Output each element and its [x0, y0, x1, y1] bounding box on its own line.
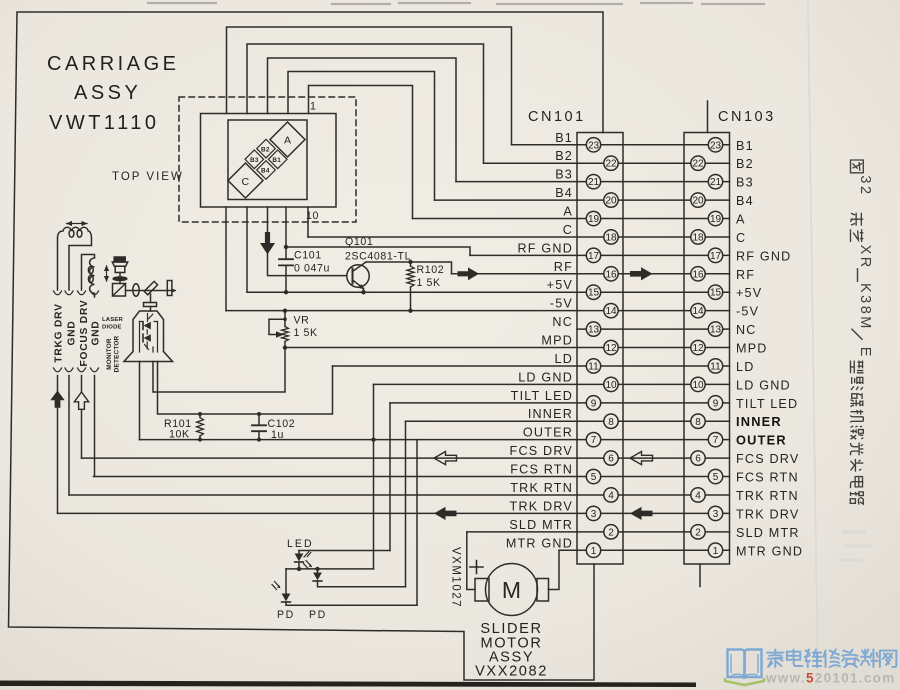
label VXM1027 (rotated) — [450, 547, 462, 608]
monitor photodiode element — [140, 322, 158, 353]
CN101 pin 23 — [586, 138, 600, 152]
relay lens — [133, 284, 139, 296]
svg-text:1 5K: 1 5K — [294, 327, 318, 339]
svg-text:22: 22 — [692, 159, 704, 170]
svg-text:SLD MTR: SLD MTR — [736, 526, 800, 540]
net label -5V (CN101 side) — [550, 297, 573, 311]
svg-text:FCS DRV: FCS DRV — [510, 444, 573, 458]
svg-text:3: 3 — [713, 509, 719, 520]
svg-text:21: 21 — [710, 177, 722, 188]
wire B1: detector pin to CN101 pin 23 — [227, 27, 512, 145]
svg-text:B4: B4 — [555, 186, 573, 200]
CN101 pin 1 — [586, 543, 600, 557]
CN103 pin 17 — [708, 248, 722, 262]
net label A (CN101 side) — [563, 205, 573, 219]
svg-text:4: 4 — [695, 490, 701, 501]
svg-text:21: 21 — [588, 177, 600, 188]
label LED — [287, 538, 314, 550]
label TRKG DRV — [54, 303, 65, 362]
label CARRIAGE ASSY VWT1110 — [47, 53, 179, 134]
CN103 pin 14 — [691, 303, 705, 317]
CN101 pin 8 — [604, 414, 618, 428]
drive arrow (hollow, up) on FOCUS DRV — [74, 392, 88, 409]
wire net RF GND row (pin 17) — [470, 254, 730, 256]
svg-text:RF: RF — [554, 260, 573, 274]
svg-text:6: 6 — [608, 454, 614, 465]
svg-text:1: 1 — [310, 101, 317, 113]
wire: detector output to Q101 base — [268, 207, 347, 276]
net label B3 (CN101 side) — [555, 168, 573, 182]
connector sockets (lower row) — [54, 368, 99, 372]
svg-text:17: 17 — [588, 251, 600, 262]
net label +5V (CN101 side) — [547, 278, 573, 292]
svg-text:FCS RTN: FCS RTN — [510, 463, 573, 477]
svg-text:OUTER: OUTER — [736, 433, 787, 448]
svg-text:FCS RTN: FCS RTN — [736, 471, 799, 485]
svg-text:MONITOR: MONITOR — [106, 338, 113, 370]
wire GND down to FCS RTN row — [94, 376, 96, 477]
net label MPD (CN103 side) — [736, 342, 768, 356]
net label INNER (CN103 side) — [736, 414, 782, 429]
photodiode IC body — [201, 114, 337, 208]
wire net B2 row (pin 22) — [484, 162, 730, 164]
wire net B1 row (pin 23) — [512, 144, 730, 146]
capacitor C102 1u — [252, 414, 266, 440]
svg-text:10K: 10K — [169, 429, 190, 441]
drive arrow (filled, up) on TRKG DRV — [50, 391, 64, 408]
svg-text:1u: 1u — [271, 429, 284, 441]
CN101 pin 17 — [586, 248, 600, 262]
signal-flow arrow RF (gap, filled right) — [630, 267, 653, 280]
net label B1 (CN103 side) — [736, 139, 754, 153]
svg-text:LED: LED — [287, 538, 314, 550]
junction: LD GND riser on OUTER/ground rail — [371, 437, 375, 441]
CN101 pin 12 — [604, 340, 618, 354]
wire LD GND riser down to LED cathode — [373, 384, 375, 569]
svg-text:B3: B3 — [250, 157, 259, 164]
svg-text:TILT LED: TILT LED — [736, 397, 798, 411]
svg-text:+5V: +5V — [547, 278, 573, 292]
svg-text:C: C — [736, 231, 746, 245]
label C102 1u — [268, 418, 296, 441]
CN103 pin 16 — [691, 267, 705, 281]
wire net MPD row (pin 12) — [285, 347, 730, 349]
LED diode — [295, 551, 311, 569]
svg-text:K38M: K38M — [857, 283, 873, 331]
svg-text:INNER: INNER — [528, 407, 573, 421]
CN103 pin 20 — [691, 193, 705, 207]
wire: detector pin to C101/RF GND node — [285, 207, 287, 259]
net label LD GND (CN101 side) — [518, 370, 573, 384]
photodiode PD (right) — [304, 561, 406, 587]
svg-text:INNER: INNER — [736, 414, 782, 429]
svg-text:A: A — [736, 213, 746, 227]
net label RF (CN101 side) — [554, 260, 573, 274]
CN101 pin 11 — [586, 359, 600, 373]
wire net INNER row (pin 8) — [406, 420, 730, 422]
half-wave plate — [167, 281, 172, 296]
wire net +5V row (pin 15) — [247, 291, 730, 293]
CN103 pin 10 — [691, 377, 705, 391]
signal-flow arrow TRK DRV (left, filled) — [434, 507, 457, 520]
svg-text:32: 32 — [857, 175, 873, 196]
CN103 pin 23 — [708, 138, 722, 152]
svg-text:M: M — [502, 577, 521, 603]
net label B2 (CN101 side) — [555, 149, 573, 163]
scan artifact: faint ghost stamps — [840, 532, 871, 560]
net label B2 (CN103 side) — [736, 157, 754, 171]
wire net TRK DRV row (pin 3) — [58, 512, 730, 514]
connector CN101 body — [577, 133, 623, 565]
net label TRK RTN (CN103 side) — [736, 489, 799, 503]
svg-text:RF GND: RF GND — [736, 249, 791, 263]
variable resistor VR 1.5K — [269, 311, 288, 348]
photodiode segment B3 — [245, 150, 264, 169]
CN101 pin 2 — [604, 525, 618, 539]
wire RF: Q101 collector jog to CN101 pin 16 — [366, 262, 452, 274]
net label OUTER (CN101 side) — [523, 426, 573, 440]
svg-text:LD GND: LD GND — [518, 370, 573, 384]
svg-text:16: 16 — [605, 269, 617, 280]
CN101 pin 14 — [604, 303, 618, 317]
resistor R101 10K — [197, 414, 204, 440]
svg-text:19: 19 — [710, 214, 722, 225]
svg-text:7: 7 — [591, 435, 597, 446]
CN101 pin 16 — [604, 267, 618, 281]
wire net -5V row (pin 14) — [226, 310, 730, 312]
net label LD (CN101 side) — [555, 352, 574, 366]
label Q101 2SC4081-TL — [345, 236, 411, 263]
pin 1 label of detector — [310, 101, 317, 113]
svg-text:15: 15 — [588, 288, 600, 299]
CN103 pin 1 — [708, 543, 722, 557]
label CN101 — [528, 109, 586, 125]
wire monitor detector to MPD node — [153, 348, 285, 392]
collimator lens — [112, 276, 127, 283]
net label C (CN101 side) — [563, 223, 573, 237]
net label C (CN103 side) — [736, 231, 746, 245]
svg-text:DETECTOR: DETECTOR — [114, 336, 121, 373]
svg-text:9: 9 — [713, 398, 719, 409]
watermark: book logo — [725, 650, 764, 686]
svg-text:12: 12 — [605, 343, 617, 354]
CN103 pin 11 — [708, 359, 722, 373]
svg-text:MPD: MPD — [736, 342, 768, 356]
wire net LD GND row (pin 10) — [374, 383, 730, 385]
svg-text:TILT LED: TILT LED — [511, 389, 573, 403]
wire net SLD MTR row (pin 2) — [467, 531, 730, 533]
net label TILT LED (CN103 side) — [736, 397, 798, 411]
wire net B3 row (pin 21) — [456, 181, 730, 183]
svg-text:VR: VR — [294, 315, 310, 327]
net label +5V (CN103 side) — [736, 286, 762, 300]
signal-flow arrow TRK DRV (gap, filled left) — [630, 507, 653, 520]
45-degree mirror — [144, 281, 157, 294]
signal-flow arrow FCS DRV (left, hollow) — [434, 452, 457, 465]
svg-text:B2: B2 — [261, 147, 270, 154]
photodiode segment C — [228, 163, 263, 198]
svg-text:B4: B4 — [736, 194, 754, 208]
svg-text:6: 6 — [695, 454, 701, 465]
svg-text:NC: NC — [552, 315, 573, 329]
wire net LD row (pin 11) — [333, 365, 730, 367]
net label RF (CN103 side) — [736, 268, 755, 282]
label PD PD — [277, 609, 327, 621]
svg-text:0 047u: 0 047u — [294, 263, 330, 275]
CN103 pin 22 — [691, 156, 705, 170]
label R101 10K — [164, 418, 192, 441]
svg-text:11: 11 — [588, 361, 599, 372]
laser diode / monitor detector can — [124, 311, 173, 362]
svg-text:LD: LD — [736, 360, 755, 374]
svg-text:B1: B1 — [272, 157, 281, 164]
svg-text:18: 18 — [692, 232, 704, 243]
CN101 pin 6 — [604, 451, 618, 465]
net label NC (CN101 side) — [552, 315, 573, 329]
CN103 pin 5 — [708, 469, 722, 483]
junction: VR bottom / MPD node — [283, 345, 287, 349]
wire GND down to TRK RTN row — [68, 376, 70, 495]
net label A (CN103 side) — [736, 213, 746, 227]
svg-text:23: 23 — [588, 140, 600, 151]
net label LD GND (CN103 side) — [736, 378, 791, 392]
svg-text:VXX2082: VXX2082 — [475, 664, 548, 680]
svg-text:14: 14 — [692, 306, 704, 317]
svg-text:1: 1 — [713, 546, 719, 557]
scan artifact: top edge smudges — [148, 3, 764, 4]
objective lens assembly — [112, 257, 127, 276]
svg-text:20: 20 — [605, 196, 617, 207]
wire C: detector to CN101 pin 18 — [307, 207, 309, 237]
wire ground rail from laser can to OUTER row — [139, 362, 141, 440]
CN101 pin 19 — [586, 211, 600, 225]
svg-text:Q101: Q101 — [345, 236, 373, 248]
CN103 pin 19 — [708, 211, 722, 225]
wire RF GND: C101 node jog to CN101 pin 17 — [286, 247, 470, 255]
net label INNER (CN101 side) — [528, 407, 573, 421]
photodiode segment A — [270, 122, 305, 157]
label VR 1.5K — [294, 315, 318, 340]
svg-text:www.520101.com: www.520101.com — [765, 671, 896, 686]
svg-text:GND: GND — [91, 320, 102, 345]
wire INNER riser — [405, 421, 407, 587]
tracking coil — [58, 227, 92, 290]
junction: Q101 emitter on +5V rail — [361, 290, 365, 294]
svg-text:GND: GND — [67, 320, 78, 345]
scan artifact: right page crease — [808, 0, 818, 690]
svg-text:8: 8 — [608, 417, 614, 428]
svg-text:19: 19 — [588, 214, 600, 225]
photodiode PD (left) — [272, 569, 417, 605]
svg-text:5: 5 — [713, 472, 719, 483]
svg-text:10: 10 — [605, 380, 617, 391]
svg-text:FCS DRV: FCS DRV — [736, 452, 799, 466]
net label SLD MTR (CN101 side) — [509, 518, 573, 532]
svg-text:B1: B1 — [555, 131, 573, 145]
svg-text:1 5K: 1 5K — [417, 277, 441, 289]
svg-text:DIODE: DIODE — [102, 325, 122, 331]
wire net TILT LED row (pin 9) — [390, 402, 730, 404]
wire net OUTER row (pin 7) — [140, 439, 730, 441]
net label MTR GND (CN103 side) — [736, 544, 803, 558]
svg-text:C: C — [242, 176, 250, 188]
label GND (focus) — [91, 320, 102, 345]
svg-text:R102: R102 — [417, 264, 445, 276]
label SLIDER MOTOR ASSY VXX2082 — [475, 621, 548, 680]
CN101 pin 5 — [586, 469, 600, 483]
beam down to laser — [150, 294, 152, 311]
wire B4: detector pin to CN101 pin 20 — [288, 72, 435, 201]
connector sockets (upper row) — [54, 291, 99, 295]
signal-flow arrow (down, filled) — [260, 232, 275, 255]
resistor R102 1.5K — [407, 262, 414, 311]
signal-flow arrow FCS DRV (gap, hollow left) — [630, 452, 653, 465]
net label SLD MTR (CN103 side) — [736, 526, 800, 540]
net label TILT LED (CN101 side) — [511, 389, 573, 403]
svg-text:13: 13 — [710, 325, 722, 336]
svg-text:TRK DRV: TRK DRV — [736, 507, 799, 521]
svg-text:18: 18 — [605, 232, 617, 243]
motor M (slider motor) — [475, 564, 549, 616]
CN101 pin 9 — [586, 396, 600, 410]
net label RF GND (CN101 side) — [518, 241, 573, 255]
wire -5V: detector pin down to -5V rail — [225, 207, 227, 311]
capacitor C101 0.047u — [279, 259, 293, 292]
net label B3 (CN103 side) — [736, 176, 754, 190]
wire stub below CN103 — [699, 564, 701, 587]
net label -5V (CN103 side) — [736, 305, 759, 319]
wire net RF row (pin 16) — [452, 273, 730, 275]
wire FOCUS DRV down to FCS DRV row — [81, 376, 83, 459]
CN101 pin 20 — [604, 193, 618, 207]
junction: R102 top on RF wire — [408, 260, 412, 264]
net label B4 (CN103 side) — [736, 194, 754, 208]
net label OUTER (CN103 side) — [736, 433, 787, 448]
svg-text:LD GND: LD GND — [736, 378, 791, 392]
svg-text:TRK RTN: TRK RTN — [510, 481, 573, 495]
CN103 pin 21 — [708, 174, 722, 188]
CN101 pin 10 — [604, 377, 618, 391]
svg-text:20: 20 — [692, 196, 704, 207]
svg-text:8: 8 — [695, 417, 701, 428]
photodiode segment B2 — [257, 139, 276, 158]
motor polarity + — [470, 561, 483, 574]
watermark: www.520101.com — [765, 671, 896, 686]
net label FCS DRV (CN103 side) — [736, 452, 799, 466]
CN101 pin 22 — [604, 156, 618, 170]
svg-text:VXM1027: VXM1027 — [450, 547, 462, 608]
svg-text:MTR GND: MTR GND — [736, 544, 803, 558]
CN103 pin 12 — [691, 340, 705, 354]
svg-text:NC: NC — [736, 323, 757, 337]
wire net C row (pin 18) — [308, 236, 730, 238]
CN101 pin 13 — [586, 322, 600, 336]
wire net FCS RTN row (pin 5) — [94, 476, 730, 478]
svg-text:11: 11 — [710, 361, 721, 372]
CN101 pin 4 — [604, 488, 618, 502]
laser diode element — [143, 314, 153, 335]
CN103 pin 7 — [708, 432, 722, 446]
wire stub above CN103 — [707, 101, 709, 133]
net label TRK DRV (CN103 side) — [736, 507, 799, 521]
CN103 pin 8 — [691, 414, 705, 428]
svg-text:5: 5 — [591, 472, 597, 483]
value label C101 0 047u — [294, 250, 330, 275]
CN101 pin 21 — [586, 174, 600, 188]
svg-text:TOP VIEW: TOP VIEW — [112, 171, 184, 183]
label LASER DIODE — [102, 317, 124, 331]
carriage assy outline (frame wire) — [9, 12, 604, 680]
svg-text:C: C — [563, 223, 573, 237]
net label FCS DRV (CN101 side) — [510, 444, 573, 458]
CN103 pin 15 — [708, 285, 722, 299]
net label TRK RTN (CN101 side) — [510, 481, 573, 495]
photodiode array IC dashed outline — [179, 97, 356, 222]
photodiode segment B1 — [268, 150, 287, 169]
svg-text:23: 23 — [710, 140, 722, 151]
svg-text:7: 7 — [713, 435, 719, 446]
CN101 pin 18 — [604, 230, 618, 244]
svg-text:+5V: +5V — [736, 286, 762, 300]
svg-text:B1: B1 — [736, 139, 754, 153]
svg-text:ASSY: ASSY — [74, 82, 141, 104]
net label MTR GND (CN101 side) — [506, 536, 573, 550]
svg-text:13: 13 — [588, 325, 600, 336]
svg-text:16: 16 — [692, 269, 704, 280]
svg-text:TRK DRV: TRK DRV — [510, 499, 573, 513]
wire net B4 row (pin 20) — [435, 199, 730, 201]
svg-text:CN101: CN101 — [528, 109, 586, 125]
svg-text:-5V: -5V — [550, 297, 573, 311]
focus coil — [82, 255, 95, 298]
CN103 pin 6 — [691, 451, 705, 465]
wire LD: rail-top riser — [158, 362, 333, 415]
svg-text:TRK RTN: TRK RTN — [736, 489, 799, 503]
junction: C101 top / RF GND — [284, 245, 288, 249]
svg-text:17: 17 — [710, 251, 722, 262]
watermark: 家电维修资料网 (pseudo-glyphs) — [767, 650, 896, 668]
svg-text:22: 22 — [605, 159, 617, 170]
scan artifact: dark bottom edge — [0, 681, 696, 688]
svg-text:B4: B4 — [261, 167, 270, 174]
label FOCUS DRV — [79, 299, 90, 366]
svg-text:MPD: MPD — [541, 334, 573, 348]
CN103 pin 4 — [691, 488, 705, 502]
junction: VR top on -5V rail — [283, 308, 287, 312]
wire +5V: detector pin down to +5V rail — [246, 207, 248, 292]
wire MTR GND to motor — [549, 550, 560, 589]
svg-text:TRKG DRV: TRKG DRV — [54, 303, 65, 362]
transistor Q101 — [347, 262, 369, 292]
net label MPD (CN101 side) — [541, 334, 573, 348]
svg-text:3: 3 — [591, 509, 597, 520]
wire net FCS DRV row (pin 6) — [82, 457, 730, 459]
svg-text:PD: PD — [309, 609, 327, 621]
junction: C101 bottom on +5V rail — [284, 290, 288, 294]
svg-text:CN103: CN103 — [718, 109, 776, 125]
svg-text:14: 14 — [605, 306, 617, 317]
svg-text:XR: XR — [857, 245, 873, 270]
svg-text:A: A — [284, 135, 292, 147]
svg-text:12: 12 — [692, 343, 704, 354]
diffraction grating — [144, 303, 157, 307]
wire net MTR GND row (pin 1) — [559, 549, 730, 551]
svg-text:OUTER: OUTER — [523, 426, 573, 440]
wire net TRK RTN row (pin 4) — [69, 494, 730, 496]
photodiode segment B4 — [257, 161, 276, 180]
svg-text:1: 1 — [591, 546, 597, 557]
junction: R102 bottom on -5V rail — [408, 308, 412, 312]
